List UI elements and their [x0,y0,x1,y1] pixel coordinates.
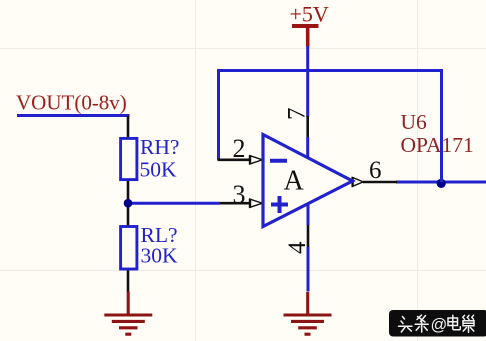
svg-text:+5V: +5V [290,2,329,27]
svg-text:VOUT(0-8v): VOUT(0-8v) [16,91,127,115]
svg-text:30K: 30K [141,244,179,268]
svg-text:A: A [284,166,305,197]
svg-text:3: 3 [233,180,246,209]
svg-text:U6: U6 [401,110,428,134]
svg-text:2: 2 [233,134,246,163]
svg-text:OPA171: OPA171 [401,133,474,157]
svg-text:@: @ [431,316,448,334]
svg-text:6: 6 [369,157,382,184]
svg-text:4: 4 [284,241,311,254]
svg-text:7: 7 [284,108,311,121]
svg-text:50K: 50K [140,158,178,182]
svg-text:RH?: RH? [140,135,179,159]
